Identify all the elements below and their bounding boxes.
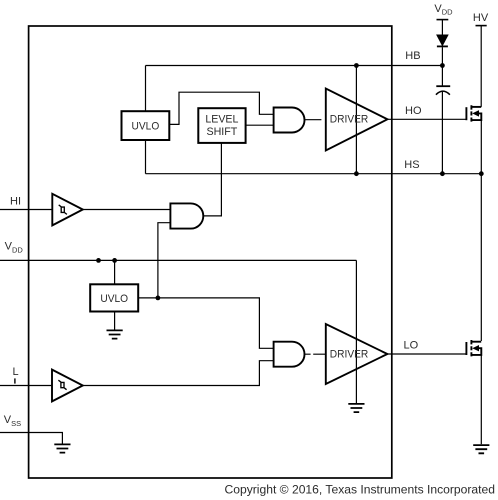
wire LO net xyxy=(387,353,465,355)
wire L buffer output to AND3 input B xyxy=(83,361,274,386)
UVLO U1 box xyxy=(122,111,170,140)
wire AND3 output xyxy=(304,353,325,355)
ground (VSS pin) xyxy=(54,444,70,452)
wire HB net xyxy=(146,65,443,67)
svg-text:SHIFT: SHIFT xyxy=(206,126,237,138)
wire FET1 source to HS junction xyxy=(480,120,482,174)
svg-text:HS: HS xyxy=(404,159,419,171)
node HB/diode xyxy=(440,63,445,68)
ground (driver A2) xyxy=(348,404,364,412)
IC boundary xyxy=(29,26,392,478)
LEVEL SHIFT box xyxy=(198,108,245,143)
DRIVER A1 (high side) xyxy=(326,89,388,151)
wire HO net xyxy=(387,118,465,120)
wire VDD pin to diode xyxy=(441,20,443,35)
svg-text:UVLO: UVLO xyxy=(132,121,160,133)
wire VSS input line xyxy=(0,433,62,444)
schmitt buffer B1 (HI) xyxy=(52,194,83,226)
transistor Q2 (low side MOSFET) xyxy=(466,340,481,356)
node HB/driver1 xyxy=(354,63,359,68)
wire LEVEL SHIFT output to AND1 input B xyxy=(246,124,274,126)
AND gate G1 (top) xyxy=(274,108,305,133)
wire VDD net xyxy=(0,259,356,261)
node VDD a xyxy=(96,258,101,263)
wire UVLO2 top pin xyxy=(114,260,116,284)
wire HV rail to FET1 drain xyxy=(480,26,482,107)
capacitor C1 (bootstrap) xyxy=(436,86,450,95)
svg-text:LEVEL: LEVEL xyxy=(205,114,238,126)
wire UVLO1 bottom pin xyxy=(145,140,147,174)
node HS/driver1 xyxy=(354,171,359,176)
svg-text:LO: LO xyxy=(404,340,419,352)
node HS/FET xyxy=(479,171,484,176)
node UVLO2 output xyxy=(156,296,161,301)
wire AND2 output to LEVEL SHIFT bottom xyxy=(203,143,221,216)
node HS/capacitor xyxy=(440,171,445,176)
wire diode to HB junction xyxy=(441,47,443,65)
UVLO U2 box xyxy=(90,284,138,311)
wire HB junction to capacitor xyxy=(441,66,443,86)
AND gate G2 (middle) xyxy=(170,203,203,228)
diode D1 (bootstrap) xyxy=(437,35,448,46)
wire L input line xyxy=(0,385,52,387)
wire HI input line xyxy=(0,209,52,211)
transistor Q1 (high side MOSFET) xyxy=(466,105,481,121)
wire AND2 input B riser xyxy=(158,223,171,298)
label L pin tick xyxy=(14,378,16,383)
wire UVLO1 output to AND1 input A xyxy=(169,92,273,124)
schmitt buffer B2 (L) xyxy=(52,370,83,402)
wire UVLO2 ground stub xyxy=(114,312,116,330)
svg-text:HI: HI xyxy=(10,196,21,208)
wire HI buffer output to AND2 input A xyxy=(83,209,171,211)
wire driver2 supply drop xyxy=(355,260,357,403)
ground (power stage) xyxy=(473,445,489,453)
DRIVER A2 (low side) xyxy=(326,324,388,384)
wire FET2 source to ground xyxy=(480,355,482,444)
wire capacitor to HS junction xyxy=(441,92,443,174)
svg-text:DRIVER: DRIVER xyxy=(330,348,369,360)
wire UVLO1 top pin xyxy=(145,66,147,112)
svg-text:DRIVER: DRIVER xyxy=(330,114,369,126)
svg-text:L: L xyxy=(13,366,19,378)
ground (UVLO2) xyxy=(107,330,123,338)
wire driver1 supply line HB to HS xyxy=(355,66,357,174)
AND gate G3 (bottom) xyxy=(274,342,305,367)
svg-text:HB: HB xyxy=(405,50,420,62)
svg-text:Copyright © 2016, Texas Instru: Copyright © 2016, Texas Instruments Inco… xyxy=(225,483,496,497)
wire AND1 output xyxy=(304,119,321,121)
wire UVLO2 output to AND3 input A xyxy=(138,298,273,348)
VDD supply pin bar xyxy=(437,19,449,21)
wire HS junction to FET2 drain xyxy=(480,174,482,341)
wire HS net xyxy=(146,173,482,175)
node VDD/UVLO2 xyxy=(112,258,117,263)
svg-text:HO: HO xyxy=(405,105,422,117)
svg-text:UVLO: UVLO xyxy=(100,293,128,305)
svg-text:HV: HV xyxy=(473,12,489,24)
HV supply pin bar xyxy=(476,25,487,27)
